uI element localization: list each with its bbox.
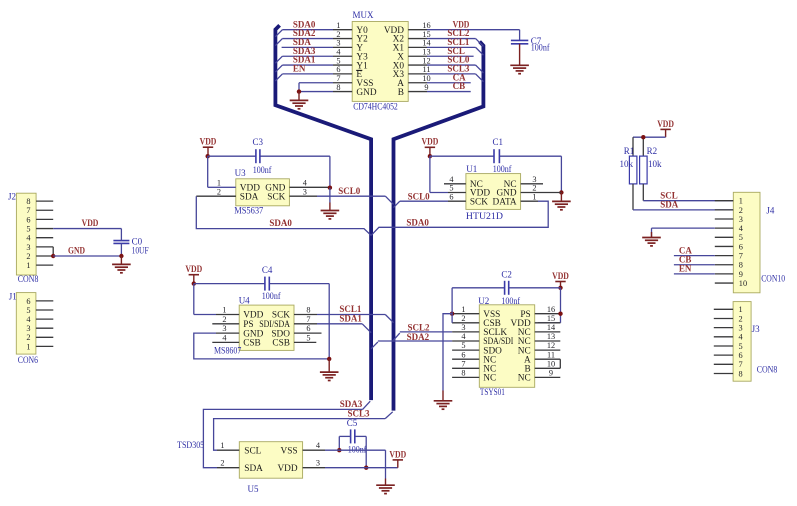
svg-text:NC: NC — [483, 374, 496, 384]
svg-text:SDA3: SDA3 — [340, 399, 363, 409]
svg-text:6: 6 — [26, 297, 30, 306]
connector J1 body — [16, 293, 36, 355]
J4 pin stubs — [715, 201, 734, 283]
svg-text:2: 2 — [739, 206, 743, 215]
junction U2 VSS node — [450, 312, 454, 316]
svg-text:5: 5 — [306, 334, 310, 343]
wire VDD from J2 pin5 — [53, 228, 121, 230]
svg-text:8: 8 — [336, 83, 340, 92]
svg-text:10: 10 — [422, 74, 430, 83]
svg-text:1: 1 — [26, 261, 30, 270]
junction U1 GND node — [559, 190, 563, 194]
svg-text:SCK: SCK — [267, 192, 285, 202]
svg-text:1: 1 — [336, 21, 340, 30]
svg-text:4: 4 — [336, 48, 341, 57]
svg-text:VDD: VDD — [200, 137, 217, 147]
net label SDA0 left — [269, 218, 292, 228]
svg-text:1: 1 — [220, 441, 224, 450]
net label SCL0 right — [408, 191, 431, 201]
svg-text:VDD: VDD — [389, 449, 406, 459]
U4 pin names — [243, 311, 290, 349]
svg-text:1: 1 — [739, 305, 743, 314]
svg-text:SCL0: SCL0 — [338, 186, 361, 196]
wire J4 pin4 to ground — [652, 228, 715, 237]
U1 part name HTU21D — [466, 211, 504, 221]
svg-text:CSB: CSB — [272, 339, 290, 349]
svg-text:10: 10 — [739, 279, 747, 288]
junction MUX ground node — [297, 89, 301, 93]
net label SCL1 — [339, 304, 362, 314]
MUX pin numbers — [336, 21, 431, 92]
net label SDA at J4 — [660, 200, 679, 210]
svg-text:VDD: VDD — [82, 218, 99, 228]
J1 designator — [9, 291, 17, 301]
connector J4 body — [733, 192, 760, 292]
svg-text:2: 2 — [222, 315, 226, 324]
C3 value 100nf — [253, 165, 272, 175]
svg-text:9: 9 — [739, 270, 743, 279]
capacitor C3 — [256, 149, 260, 163]
resistor U4 chip body MS8607 — [239, 305, 294, 350]
svg-text:CON8: CON8 — [18, 274, 39, 284]
R2 value 10k — [648, 159, 662, 169]
junction U4 GND node — [327, 357, 331, 361]
junction U4 VDD node — [192, 281, 196, 285]
svg-text:MS5637: MS5637 — [234, 206, 264, 216]
ground at MUX — [290, 92, 309, 109]
VDD symbol at J4 — [657, 119, 674, 137]
C2 designator — [501, 270, 512, 280]
svg-text:SDA: SDA — [240, 192, 259, 202]
resistor R1 — [629, 156, 637, 184]
svg-text:C1: C1 — [493, 137, 504, 147]
MUX pin names — [356, 26, 404, 98]
connector J3 body — [733, 302, 751, 382]
svg-text:C5: C5 — [347, 418, 358, 428]
wire CA CB stubs — [427, 83, 471, 92]
svg-text:C2: C2 — [501, 270, 512, 280]
junction R2 top — [641, 135, 645, 139]
wire SDA2 to U2 — [371, 341, 452, 349]
wire U5 VDD — [325, 467, 398, 469]
net label CB at J4 — [679, 255, 692, 265]
junction U2 pin16 node — [558, 312, 562, 316]
VDD symbol at U2 — [552, 271, 569, 288]
U2 pin names — [483, 310, 531, 384]
svg-text:6: 6 — [26, 215, 30, 224]
svg-text:SCL: SCL — [244, 447, 261, 457]
svg-text:6: 6 — [739, 242, 743, 251]
wire EN to J4 pin9 — [674, 273, 715, 275]
wire MUX right nets SCL2 SCL1 SCL SCL0 SCL3 with bus entries — [427, 39, 483, 82]
svg-text:U5: U5 — [248, 484, 259, 494]
net label SDA3 — [340, 399, 363, 409]
svg-text:12: 12 — [547, 341, 555, 350]
VDD symbol at U1 — [422, 137, 439, 157]
J4 part name CON10 — [761, 273, 785, 283]
svg-text:16: 16 — [422, 21, 430, 30]
svg-text:14: 14 — [547, 323, 556, 332]
svg-text:VDD: VDD — [277, 464, 297, 474]
svg-text:6: 6 — [739, 351, 743, 360]
svg-text:3: 3 — [222, 324, 226, 333]
wire J2 pin3 elbow — [52, 247, 54, 256]
capacitor C2 — [505, 281, 509, 295]
svg-text:14: 14 — [422, 39, 431, 48]
J1 pin stubs — [36, 301, 53, 347]
U3 pin stubs — [220, 187, 330, 196]
svg-text:100nf: 100nf — [493, 164, 512, 174]
U2 part name TSYS01 — [480, 387, 505, 397]
svg-text:1: 1 — [26, 342, 30, 351]
junction J2 pin3-pin2 — [51, 254, 55, 258]
J1 pin numbers — [26, 297, 31, 352]
svg-text:15: 15 — [547, 314, 555, 323]
C5 designator — [347, 418, 358, 428]
U4 pin numbers — [222, 306, 310, 343]
svg-text:TSD305: TSD305 — [177, 440, 205, 450]
net label SCL2 — [408, 323, 431, 333]
svg-text:SDA1: SDA1 — [339, 313, 362, 323]
svg-text:3: 3 — [316, 459, 320, 468]
svg-text:SDA: SDA — [244, 464, 263, 474]
wire SCL0 to U1 — [394, 201, 449, 207]
svg-text:100nf: 100nf — [531, 42, 550, 52]
J2 designator — [8, 192, 16, 202]
svg-text:10k: 10k — [648, 159, 662, 169]
ground at U2 — [434, 391, 453, 410]
wire GND from J2 pin2 — [53, 255, 121, 257]
C2 value 100nf — [501, 296, 520, 306]
svg-text:C4: C4 — [262, 265, 273, 275]
junction U1 VDD node — [428, 154, 432, 158]
C5 value 100nf — [348, 444, 367, 454]
svg-text:8: 8 — [26, 197, 30, 206]
J2 part name CON8 — [18, 274, 39, 284]
svg-text:MUX: MUX — [353, 10, 375, 20]
J1 part name CON6 — [18, 355, 39, 365]
MUX part name CD74HC4052 — [353, 101, 398, 111]
svg-text:1: 1 — [532, 192, 536, 201]
capacitor C5 — [351, 429, 355, 443]
wire CB to J4 pin8 — [674, 264, 715, 266]
svg-text:7: 7 — [739, 252, 743, 261]
ground at U1 — [552, 193, 571, 210]
net label SDA0 right — [406, 217, 429, 227]
svg-text:B: B — [398, 88, 404, 98]
wire U4 VDD rail — [194, 284, 329, 359]
svg-text:9: 9 — [549, 369, 553, 378]
svg-text:3: 3 — [26, 243, 30, 252]
transistor U3 chip body MS5637 — [236, 179, 290, 206]
svg-text:1: 1 — [222, 306, 226, 315]
svg-text:13: 13 — [422, 48, 430, 57]
svg-text:CSB: CSB — [243, 339, 261, 349]
svg-text:EN: EN — [679, 264, 692, 274]
svg-text:2: 2 — [739, 314, 743, 323]
svg-text:3: 3 — [303, 187, 307, 196]
svg-text:8: 8 — [306, 306, 310, 315]
svg-text:6: 6 — [336, 65, 340, 74]
J3 designator — [752, 324, 761, 334]
svg-text:1: 1 — [461, 305, 465, 314]
svg-text:2: 2 — [26, 333, 30, 342]
svg-text:2: 2 — [217, 187, 221, 196]
svg-text:CON6: CON6 — [18, 355, 39, 365]
bus SDA (left thick bus) — [275, 25, 371, 400]
svg-text:5: 5 — [461, 341, 465, 350]
capacitor C0 — [113, 229, 129, 256]
U4 part name MS8607 — [214, 345, 242, 355]
J4 pin numbers — [739, 197, 747, 288]
capacitor C4 — [265, 277, 269, 291]
capacitor C1 — [494, 149, 499, 163]
svg-text:3: 3 — [739, 215, 743, 224]
svg-text:5: 5 — [336, 56, 340, 65]
svg-text:SCK: SCK — [470, 197, 488, 207]
svg-text:8: 8 — [461, 369, 465, 378]
C4 designator — [262, 265, 273, 275]
svg-text:2: 2 — [532, 184, 536, 193]
svg-text:2: 2 — [461, 314, 465, 323]
wire SDA3 to U5 — [203, 401, 370, 468]
C1 value 100nf — [493, 164, 512, 174]
ground at U3 — [321, 188, 340, 219]
VDD symbol at U3 — [200, 137, 217, 157]
svg-text:6: 6 — [461, 350, 465, 359]
net labels SDA0 SDA2 SDA SDA3 SDA1 EN — [293, 19, 316, 73]
U5 pin stubs — [217, 450, 325, 468]
svg-text:16: 16 — [547, 305, 555, 314]
svg-text:4: 4 — [222, 334, 227, 343]
svg-text:4: 4 — [449, 175, 454, 184]
U3 designator — [235, 168, 246, 178]
svg-text:TSYS01: TSYS01 — [480, 387, 505, 397]
capacitor C7 — [511, 40, 528, 43]
svg-text:VDD: VDD — [552, 271, 569, 281]
wire MUX VSS GND to ground — [299, 83, 333, 92]
svg-text:CON8: CON8 — [757, 365, 778, 375]
bus SCL (right thick bus) — [394, 42, 484, 411]
U5 pin names — [244, 447, 298, 475]
J2 pin numbers — [26, 197, 31, 270]
svg-text:15: 15 — [422, 30, 430, 39]
svg-text:10k: 10k — [620, 159, 634, 169]
junction U3 GND node — [328, 186, 332, 190]
resistor R2 — [640, 156, 648, 184]
capacitor U2 chip body TSYS01 — [479, 305, 534, 388]
U2 pin numbers — [461, 305, 556, 378]
svg-text:U3: U3 — [235, 168, 246, 178]
connector J2 body — [16, 193, 36, 275]
svg-text:CD74HC4052: CD74HC4052 — [353, 101, 398, 111]
C4 value 100nf — [262, 291, 281, 301]
svg-text:VDD: VDD — [657, 119, 674, 129]
svg-text:11: 11 — [423, 65, 431, 74]
U3 pin names — [240, 184, 286, 203]
svg-text:VSS: VSS — [281, 447, 298, 457]
C7 value 100nf — [531, 42, 550, 52]
svg-text:100nf: 100nf — [253, 165, 272, 175]
svg-text:VDD: VDD — [185, 264, 202, 274]
svg-text:100nf: 100nf — [348, 444, 367, 454]
J3 pin numbers — [739, 305, 744, 378]
svg-text:11: 11 — [547, 350, 555, 359]
net label EN at J4 — [679, 264, 692, 274]
diode U1 chip body HTU21D — [466, 174, 521, 210]
wire MUX left nets SDA0 SDA2 SDA SDA3 SDA1 EN with bus entries — [275, 30, 333, 81]
U4 designator — [239, 296, 250, 306]
wire SCL3 to U5 — [214, 412, 393, 450]
wire SDA0 from U3 — [196, 196, 371, 235]
U4 pin stubs — [212, 315, 321, 343]
C0 value 10UF — [132, 245, 149, 255]
R2 designator — [647, 146, 658, 156]
U5 designator — [248, 484, 259, 494]
net label GND at J2 — [68, 246, 85, 256]
svg-text:SDA0: SDA0 — [406, 217, 429, 227]
ground at U4 — [320, 359, 339, 381]
svg-text:U1: U1 — [466, 164, 477, 174]
svg-text:R1: R1 — [624, 146, 635, 156]
net label SDA2 — [407, 332, 430, 342]
wire U2 VSS rail — [443, 288, 452, 391]
svg-text:7: 7 — [336, 74, 340, 83]
net label SCL0 left — [338, 186, 361, 196]
svg-text:J1: J1 — [9, 291, 17, 301]
MUX pin stubs — [333, 30, 427, 92]
J4 designator — [766, 206, 775, 216]
wire SCL0 from U3 — [317, 196, 394, 204]
svg-text:VDD: VDD — [422, 137, 439, 147]
svg-text:5: 5 — [739, 233, 743, 242]
svg-text:3: 3 — [739, 324, 743, 333]
svg-text:EN: EN — [293, 64, 306, 74]
R1 value 10k — [620, 159, 634, 169]
VDD symbol at U5 — [389, 449, 406, 467]
C1 designator — [493, 137, 504, 147]
net label SCL at J4 — [660, 190, 678, 200]
wire C7 to ground — [519, 44, 521, 66]
J2 pin stubs — [36, 201, 53, 265]
svg-text:8: 8 — [739, 369, 743, 378]
wire SDA1 from U4 — [317, 324, 371, 333]
svg-text:7: 7 — [306, 315, 310, 324]
svg-text:SDA: SDA — [660, 200, 679, 210]
junction C5 right node — [364, 466, 368, 470]
svg-text:4: 4 — [316, 441, 321, 450]
U5 pin numbers — [220, 441, 321, 468]
VDD symbol at U4 — [185, 264, 202, 284]
net label SCL3 — [348, 409, 371, 419]
svg-text:6: 6 — [306, 324, 310, 333]
svg-text:1: 1 — [217, 178, 221, 187]
thermopile U5 chip body TSD305 — [239, 442, 302, 479]
svg-text:J3: J3 — [752, 324, 761, 334]
svg-text:SCL0: SCL0 — [408, 191, 431, 201]
C7 designator — [531, 36, 542, 46]
junction U2 VDD node — [558, 286, 562, 290]
ground at C7 — [510, 65, 529, 73]
net label VDD at J2 — [82, 218, 99, 228]
net label CA at J4 — [679, 245, 692, 255]
svg-text:R2: R2 — [647, 146, 658, 156]
C3 designator — [253, 137, 264, 147]
svg-text:2: 2 — [26, 252, 30, 261]
wire C5 loop — [339, 436, 366, 467]
U3 part name MS5637 — [234, 206, 264, 216]
U1 designator — [466, 164, 477, 174]
svg-text:C3: C3 — [253, 137, 264, 147]
svg-text:DATA: DATA — [493, 197, 517, 207]
U2 pin stubs — [452, 314, 560, 378]
wire U5 VSS to ground — [325, 450, 386, 485]
wire U1 VDD rail — [430, 156, 562, 192]
wire SDA0 to U1 — [371, 201, 548, 235]
svg-text:10UF: 10UF — [132, 245, 149, 255]
U5 part name TSD305 — [177, 440, 205, 450]
svg-text:8: 8 — [739, 261, 743, 270]
svg-text:5: 5 — [449, 184, 453, 193]
svg-text:3: 3 — [461, 323, 465, 332]
svg-text:J2: J2 — [8, 192, 16, 202]
wire SDA from R1 to J4 pin2 — [633, 184, 733, 210]
U1 pin names — [470, 180, 517, 207]
svg-text:13: 13 — [547, 332, 555, 341]
svg-text:10: 10 — [547, 359, 555, 368]
wire VDD from MUX pin16 to C7 — [427, 30, 520, 40]
wire SCL2 to U2 — [394, 332, 453, 340]
junction C0 bottom — [119, 254, 123, 258]
wire U1 pin2 to gnd node — [538, 192, 561, 194]
svg-text:7: 7 — [461, 359, 465, 368]
U2 designator — [478, 296, 489, 306]
svg-text:7: 7 — [26, 206, 30, 215]
wire SCL from R2 to J4 pin1 — [643, 184, 733, 201]
svg-text:9: 9 — [424, 83, 428, 92]
svg-text:MS8607: MS8607 — [214, 345, 242, 355]
wire U2 VDD rail — [452, 288, 560, 323]
svg-text:2: 2 — [336, 30, 340, 39]
svg-text:GND: GND — [356, 88, 376, 98]
C0 designator — [132, 236, 143, 246]
op-amp U? MUX chip body CD74HC4052 — [352, 22, 408, 102]
U1 pin stubs — [444, 184, 543, 201]
svg-text:7: 7 — [739, 360, 743, 369]
svg-text:HTU21D: HTU21D — [466, 211, 504, 221]
svg-text:CON10: CON10 — [761, 273, 785, 283]
svg-text:5: 5 — [739, 342, 743, 351]
svg-text:CB: CB — [453, 81, 466, 91]
svg-text:1: 1 — [739, 197, 743, 206]
svg-text:3: 3 — [336, 39, 340, 48]
svg-text:SDA2: SDA2 — [407, 332, 430, 342]
ground at J4 — [642, 238, 661, 246]
svg-text:2: 2 — [220, 459, 224, 468]
MUX designator — [353, 10, 375, 20]
svg-text:J4: J4 — [766, 206, 775, 216]
svg-text:6: 6 — [449, 192, 453, 201]
wire U3 VDD rail — [208, 156, 330, 188]
svg-text:3: 3 — [532, 175, 536, 184]
net labels VDD SCL2 SCL1 SCL SCL0 SCL3 CA CB — [447, 19, 470, 91]
svg-text:5: 5 — [26, 224, 30, 233]
ground at U5 — [376, 485, 395, 493]
ground at J2 — [112, 256, 131, 273]
svg-text:100nf: 100nf — [262, 291, 281, 301]
wire SCL1 from U4 — [317, 315, 394, 323]
wire VDD rail R1 R2 — [633, 137, 666, 156]
